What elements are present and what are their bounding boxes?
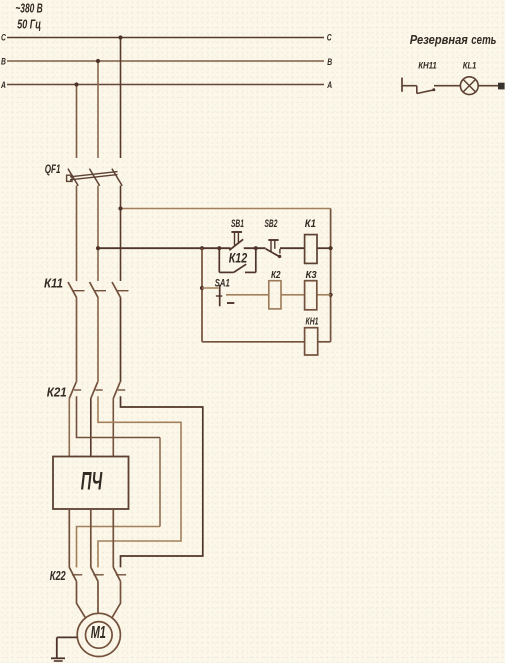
svg-text:ПЧ: ПЧ <box>81 468 103 496</box>
svg-text:B: B <box>1 57 6 67</box>
svg-text:К22: К22 <box>50 570 67 584</box>
svg-text:К12: К12 <box>229 250 248 266</box>
svg-text:SA1: SA1 <box>215 277 230 288</box>
svg-text:B: B <box>327 57 332 67</box>
svg-text:М1: М1 <box>91 624 106 643</box>
svg-text:SB2: SB2 <box>265 217 278 229</box>
svg-text:A: A <box>0 80 6 90</box>
svg-text:сеть: сеть <box>471 34 496 48</box>
svg-text:SB1: SB1 <box>231 217 244 229</box>
svg-text:КL1: КL1 <box>463 60 477 71</box>
svg-text:КН1: КН1 <box>306 315 319 327</box>
svg-text:A: A <box>326 80 332 90</box>
svg-text:К1: К1 <box>305 218 316 230</box>
svg-text:C: C <box>1 33 6 43</box>
svg-text:К3: К3 <box>306 270 318 282</box>
svg-text:КН11: КН11 <box>418 60 437 71</box>
svg-text:QF1: QF1 <box>45 164 61 177</box>
svg-text:Резервная: Резервная <box>410 32 468 47</box>
svg-text:50 Гц: 50 Гц <box>17 18 41 32</box>
svg-text:К2: К2 <box>271 269 281 280</box>
svg-text:К11: К11 <box>44 276 63 291</box>
svg-text:~380 В: ~380 В <box>15 2 42 16</box>
svg-text:К21: К21 <box>47 385 67 400</box>
svg-text:C: C <box>327 33 332 43</box>
